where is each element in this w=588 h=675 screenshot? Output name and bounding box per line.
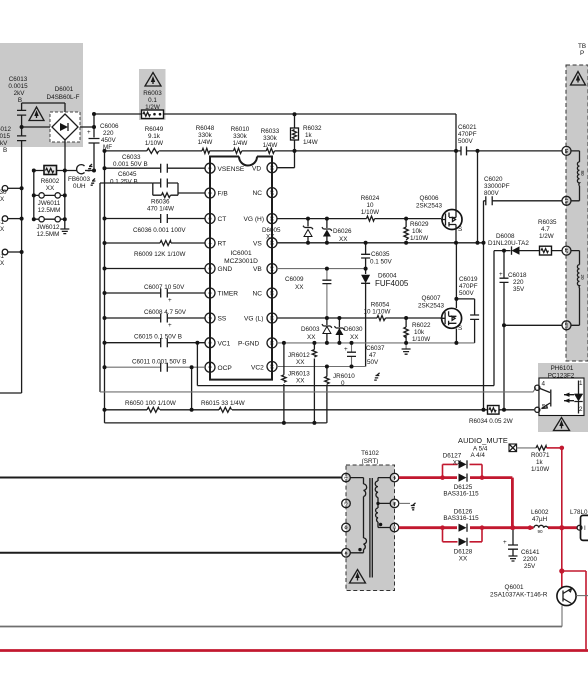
- terminal (AC in 1): [0, 186, 22, 204]
- svg-text:17: 17: [564, 248, 569, 254]
- svg-text:TB: TB: [578, 43, 586, 50]
- IC left pin circles: [205, 163, 215, 372]
- svg-text:R6034 0.05 2W: R6034 0.05 2W: [469, 418, 513, 425]
- svg-text:35V: 35V: [513, 286, 525, 293]
- junction (VS node): [306, 241, 486, 245]
- junction (AC input rail): [20, 125, 24, 254]
- svg-text:D6127: D6127: [443, 453, 462, 460]
- svg-text:C6018: C6018: [508, 272, 527, 279]
- svg-text:XX: XX: [266, 234, 275, 241]
- wire pin8 ground stub: [399, 503, 416, 510]
- svg-text:25V: 25V: [524, 563, 536, 570]
- warning triangle (T6102): [350, 570, 366, 584]
- bridge rectifier D6001: [47, 86, 80, 142]
- svg-text:1/4W: 1/4W: [263, 142, 278, 149]
- svg-text:7: 7: [207, 317, 212, 320]
- diode D6128: [454, 538, 473, 563]
- svg-text:450V: 450V: [101, 137, 117, 144]
- junction (P-GND row): [282, 341, 459, 345]
- svg-text:VG (L): VG (L): [244, 316, 263, 323]
- svg-text:T6102: T6102: [361, 450, 379, 457]
- svg-text:R6009 12K 1/10W: R6009 12K 1/10W: [134, 251, 186, 258]
- capacitor C6015: [134, 334, 182, 348]
- svg-text:VS: VS: [253, 240, 262, 247]
- svg-text:11: 11: [269, 341, 274, 346]
- svg-text:R6036: R6036: [151, 199, 170, 206]
- wire opto drive row: [100, 388, 536, 392]
- resistor R6015: [201, 400, 245, 412]
- jumper JW6011: [34, 193, 65, 214]
- wire AC line rail: [0, 103, 65, 393]
- MOSFET Q6006: [416, 114, 462, 243]
- wire secondary 9 red row: [399, 526, 577, 529]
- svg-text:500V: 500V: [458, 138, 474, 145]
- svg-text:L6002: L6002: [531, 509, 549, 516]
- svg-text:10: 10: [269, 364, 274, 370]
- warning triangle (PH6101): [554, 418, 570, 431]
- svg-text:VB: VB: [253, 266, 262, 273]
- svg-text:NC: NC: [253, 190, 263, 197]
- capacitor C6013: [8, 76, 28, 115]
- svg-text:0UH: 0UH: [73, 183, 86, 190]
- diode D6126: [443, 509, 479, 532]
- svg-text:1/10W: 1/10W: [531, 466, 549, 473]
- resistor R6054: [364, 302, 391, 321]
- svg-text:JR6012: JR6012: [288, 352, 310, 359]
- svg-text:1: 1: [579, 380, 583, 387]
- resistor R6034: [469, 406, 513, 426]
- capacitor C6020: [484, 176, 563, 205]
- T6001 pin 17: [562, 246, 571, 255]
- AC input shaded area: [0, 43, 83, 147]
- svg-text:2: 2: [579, 406, 583, 413]
- svg-text:kV: kV: [0, 140, 8, 147]
- svg-text:R6002: R6002: [41, 178, 60, 185]
- svg-text:R6003: R6003: [143, 90, 162, 97]
- svg-text:4: 4: [542, 381, 546, 388]
- svg-text:BAS316-115: BAS316-115: [443, 515, 479, 522]
- svg-text:P-GND: P-GND: [238, 341, 259, 348]
- svg-text:2kV: 2kV: [14, 90, 26, 97]
- svg-text:1/10W: 1/10W: [412, 336, 430, 343]
- vertical rail (left): [104, 151, 106, 423]
- wire pin1 VSENSE row: [105, 167, 206, 169]
- hazard resistor R6003: [142, 73, 164, 119]
- svg-text:C6013: C6013: [9, 76, 28, 83]
- resistor R6002: [34, 166, 77, 193]
- transistor Q6001: [490, 584, 576, 606]
- IC right pin circles: [267, 163, 277, 372]
- svg-text:0.1: 0.1: [148, 97, 157, 104]
- svg-text:18: 18: [564, 323, 569, 329]
- svg-text:C6019: C6019: [459, 276, 478, 283]
- svg-text:90: 90: [537, 529, 543, 534]
- svg-text:80: 80: [580, 170, 585, 176]
- T6102 pin 7: [390, 473, 399, 482]
- svg-text:0.1 50V: 0.1 50V: [370, 259, 393, 266]
- jumper JR6012: [288, 343, 317, 423]
- svg-text:XX: XX: [350, 334, 359, 341]
- PH6101 LED: [574, 380, 583, 414]
- svg-text:+: +: [503, 539, 507, 546]
- svg-text:Q6001: Q6001: [505, 584, 524, 591]
- svg-text:1/10W: 1/10W: [145, 140, 163, 147]
- svg-text:JW6011: JW6011: [38, 200, 61, 207]
- svg-text:XX: XX: [46, 185, 55, 192]
- svg-text:C6141: C6141: [521, 549, 540, 556]
- wire pin4 RT row: [105, 242, 206, 244]
- capacitor C6019: [456, 276, 479, 343]
- capacitor C6008: [144, 309, 187, 329]
- svg-text:R6029: R6029: [410, 221, 429, 228]
- svg-text:R6024: R6024: [361, 195, 380, 202]
- svg-text:D6003: D6003: [301, 326, 320, 333]
- svg-text:3: 3: [207, 217, 212, 220]
- wire pin16 gate row (high): [277, 218, 441, 220]
- svg-text:NC: NC: [253, 291, 263, 298]
- vertical rail (F/B return): [99, 183, 101, 392]
- wire red branch to B+: [562, 571, 586, 649]
- svg-text:D6008: D6008: [496, 233, 515, 240]
- svg-text:JR6013: JR6013: [288, 371, 310, 378]
- regulator L78L09: [570, 509, 588, 540]
- wire pin3 CT row: [105, 218, 206, 220]
- svg-text:I: I: [584, 525, 586, 532]
- svg-text:0.1 25V B: 0.1 25V B: [110, 179, 138, 186]
- svg-text:220: 220: [513, 279, 524, 286]
- svg-text:+: +: [499, 271, 503, 278]
- svg-text:12.5MM: 12.5MM: [37, 231, 60, 238]
- svg-text:XX: XX: [339, 236, 348, 243]
- svg-text:D6026: D6026: [333, 228, 352, 235]
- ground (R6022): [402, 343, 411, 354]
- svg-text:R6054: R6054: [371, 302, 390, 309]
- terminal (AC in 3): [0, 249, 22, 267]
- svg-text:D6128: D6128: [454, 549, 473, 556]
- svg-text:17: 17: [269, 190, 274, 196]
- T6102 pin 9: [390, 523, 399, 532]
- svg-text:VC2: VC2: [251, 365, 264, 372]
- jumper JR6013: [282, 343, 311, 423]
- svg-text:1/4W: 1/4W: [198, 139, 213, 146]
- junction (VC2 row): [325, 297, 459, 369]
- svg-text:15: 15: [564, 148, 569, 154]
- junction (gate row low): [325, 316, 408, 320]
- wire pin17 aux row: [494, 251, 562, 386]
- ground tag (JR6010): [374, 373, 379, 380]
- svg-text:+: +: [168, 322, 172, 329]
- svg-text:XX: XX: [295, 284, 304, 291]
- svg-text:GND: GND: [218, 266, 233, 273]
- svg-text:1k: 1k: [305, 132, 313, 139]
- svg-text:C6036 0.001 100V: C6036 0.001 100V: [133, 227, 186, 234]
- wire pin15 VS row: [277, 242, 484, 244]
- svg-text:XX: XX: [307, 334, 316, 341]
- diode D6125: [443, 474, 479, 498]
- svg-text:VD: VD: [252, 165, 261, 172]
- transformer T6001 box: [566, 65, 588, 361]
- svg-text:D6030: D6030: [344, 326, 363, 333]
- warning triangle (bridge): [29, 107, 44, 121]
- svg-text:9: 9: [207, 366, 212, 369]
- svg-text:14: 14: [269, 266, 274, 272]
- capacitor C6007: [144, 284, 185, 304]
- svg-text:6: 6: [207, 292, 212, 295]
- diode D6127: [443, 453, 467, 469]
- svg-text:CT: CT: [218, 216, 227, 223]
- svg-text:MCZ3001D: MCZ3001D: [224, 258, 258, 265]
- wire HV drop: [483, 201, 485, 410]
- svg-text:330k: 330k: [263, 135, 278, 142]
- IC6001 MCZ3001D body: [210, 157, 272, 380]
- T6001 winding 17-18: [571, 251, 585, 326]
- svg-text:R6032: R6032: [303, 125, 322, 132]
- svg-text:C6015 0.1 50V B: C6015 0.1 50V B: [134, 334, 182, 341]
- inductor L6002: [531, 509, 549, 534]
- resistor R6035: [538, 219, 557, 255]
- svg-text:C6037: C6037: [366, 345, 385, 352]
- capacitor C6011: [132, 359, 187, 372]
- svg-text:2200: 2200: [523, 556, 538, 563]
- svg-text:VG (H): VG (H): [244, 216, 265, 223]
- svg-text:VSENSE: VSENSE: [218, 166, 245, 173]
- svg-text:FUF4005: FUF4005: [375, 279, 409, 288]
- wire red to Q6001: [561, 528, 563, 588]
- svg-text:12: 12: [269, 315, 274, 321]
- snubber C6021 return: [477, 151, 479, 243]
- svg-text:BAS316-115: BAS316-115: [443, 491, 479, 498]
- svg-text:XX: XX: [296, 378, 305, 385]
- wire pin7 SS row: [105, 317, 206, 319]
- svg-text:800V: 800V: [484, 190, 500, 197]
- wire bridge right: [78, 126, 94, 128]
- svg-text:330k: 330k: [198, 132, 213, 139]
- T6102 pin 2: [342, 499, 351, 508]
- ground (JW6012): [60, 219, 69, 233]
- svg-text:47: 47: [369, 352, 377, 359]
- resistor R0071: [517, 446, 550, 473]
- svg-text:47µH: 47µH: [532, 516, 548, 523]
- svg-text:R6010: R6010: [231, 126, 250, 133]
- optocoupler PH6101: [539, 365, 584, 416]
- svg-text:1: 1: [344, 476, 349, 479]
- wire below-IC aux feed: [197, 385, 494, 387]
- svg-text:1k: 1k: [536, 459, 544, 466]
- svg-text:D1NL20U-TA2: D1NL20U-TA2: [488, 240, 529, 247]
- svg-text:2SK2543: 2SK2543: [418, 303, 444, 310]
- svg-text:5: 5: [207, 267, 212, 270]
- T6001 pin 16: [562, 196, 571, 205]
- resistor R6032: [291, 114, 323, 151]
- junction (R6002/jumper rows): [32, 112, 96, 221]
- red junction dots: [440, 446, 564, 574]
- svg-text:1/2W: 1/2W: [539, 233, 554, 240]
- svg-text:C6006: C6006: [100, 123, 119, 130]
- svg-text:F/B: F/B: [218, 191, 229, 198]
- resistor R6029: [404, 219, 429, 243]
- junction (VB row): [325, 267, 368, 271]
- svg-text:8: 8: [207, 341, 212, 344]
- svg-text:JR6010: JR6010: [333, 373, 355, 380]
- T6001 pin 18: [562, 321, 571, 330]
- wire pin10 VC2 row: [277, 366, 366, 368]
- capacitor C6021: [458, 124, 477, 155]
- svg-text:A 4/4: A 4/4: [471, 452, 486, 459]
- resistor R6048: [196, 125, 215, 153]
- svg-text:4: 4: [344, 552, 349, 555]
- svg-text:XX: XX: [296, 359, 305, 366]
- resistor R6033: [261, 128, 280, 153]
- wire bridge left: [22, 126, 52, 128]
- svg-text:XX: XX: [459, 556, 468, 563]
- svg-text:10 1/10W: 10 1/10W: [364, 309, 391, 316]
- wire neutral line (bottom left): [0, 552, 342, 554]
- svg-text:C6035: C6035: [371, 251, 390, 258]
- resistor R6049: [145, 126, 164, 153]
- svg-text:R6050 100 1/10W: R6050 100 1/10W: [125, 400, 176, 407]
- wire Q6001 collector to cold rail: [561, 605, 563, 626]
- svg-text:470PF: 470PF: [458, 131, 477, 138]
- resistor R6009: [134, 241, 186, 259]
- svg-text:C6007 10 50V: C6007 10 50V: [144, 284, 185, 291]
- wire Q6001 base: [576, 595, 588, 597]
- resistor R6050: [125, 400, 176, 412]
- wire pin5 GND row: [105, 268, 206, 270]
- svg-text:TIMER: TIMER: [218, 291, 239, 298]
- wire 15V red drop: [561, 448, 563, 528]
- svg-text:10k: 10k: [412, 228, 423, 235]
- svg-text:9: 9: [392, 526, 397, 529]
- svg-text:Q6006: Q6006: [420, 195, 439, 202]
- wire hot line (bottom left): [0, 477, 342, 479]
- wire pin8 VC1 row: [105, 342, 206, 344]
- svg-text:C6045: C6045: [118, 171, 137, 178]
- svg-text:B: B: [18, 97, 22, 104]
- audio mute tag: [458, 436, 517, 459]
- svg-text:0.0015: 0.0015: [8, 83, 28, 90]
- T6102 pin 8: [390, 499, 399, 508]
- wire pin14 VB row: [277, 268, 366, 270]
- junction (aux supply column): [482, 249, 507, 412]
- warning triangle (T6001): [571, 72, 586, 86]
- svg-text:31: 31: [0, 253, 5, 260]
- T6102 core: [370, 478, 372, 578]
- capacitor C6018: [499, 251, 527, 326]
- svg-text:50V: 50V: [367, 359, 379, 366]
- svg-text:7: 7: [392, 476, 397, 479]
- svg-text:2SA1037AK-T146-R: 2SA1037AK-T146-R: [490, 592, 548, 599]
- junction (left feed rail): [103, 149, 200, 412]
- svg-text:220: 220: [103, 130, 114, 137]
- svg-text:500V: 500V: [459, 290, 475, 297]
- transformer T6102 labels: [361, 450, 379, 465]
- svg-text:1/10W: 1/10W: [410, 235, 428, 242]
- svg-text:15: 15: [269, 240, 274, 246]
- svg-text:470 1/4W: 470 1/4W: [147, 206, 174, 213]
- wire secondary 7 red row: [399, 476, 513, 479]
- svg-text:+: +: [87, 129, 91, 136]
- svg-text:16: 16: [269, 216, 274, 222]
- T6001 pin 15: [562, 146, 571, 155]
- capacitor C6009: [285, 269, 331, 318]
- svg-text:0015: 0015: [0, 133, 11, 140]
- wire ground return row: [105, 409, 535, 411]
- PH6101 coupling arrows: [564, 393, 574, 403]
- optocoupler PH6101 box: [538, 363, 588, 432]
- wire sense rail: [105, 150, 563, 152]
- svg-text:R6015 33 1/4W: R6015 33 1/4W: [201, 400, 245, 407]
- svg-text:16: 16: [564, 198, 569, 204]
- T6102 pin 1: [342, 473, 351, 482]
- svg-text:10: 10: [366, 202, 374, 209]
- svg-text:C6009: C6009: [285, 276, 304, 283]
- T6102 pin 3: [342, 523, 351, 532]
- wire bottom return row: [105, 422, 327, 424]
- zener D6005: [262, 219, 313, 243]
- T6102 pin 4: [342, 549, 351, 558]
- junction (bottom return row): [282, 421, 317, 425]
- zener D6003: [301, 318, 332, 343]
- wire pin2 F/B branch: [100, 183, 205, 195]
- wire cold rail: [0, 626, 562, 628]
- terminal (AC in 2): [0, 216, 22, 233]
- svg-text:18: 18: [269, 165, 274, 171]
- svg-text:IC6001: IC6001: [230, 250, 252, 257]
- capacitor C6033: [88, 154, 168, 173]
- transformer T6001 label (cut): [578, 43, 586, 57]
- svg-text:4.7: 4.7: [541, 226, 550, 233]
- svg-text:R6022: R6022: [412, 322, 431, 329]
- svg-text:C6011 0.001 50V B: C6011 0.001 50V B: [132, 359, 187, 366]
- wire pin9 OCP row: [105, 366, 206, 368]
- wire pin18 aux row: [504, 325, 562, 410]
- svg-text:2: 2: [207, 192, 212, 195]
- svg-text:R6049: R6049: [145, 126, 164, 133]
- svg-text:470PF: 470PF: [459, 283, 478, 290]
- wire R6002 row verticals: [34, 171, 65, 220]
- wire audio mute red: [547, 447, 562, 449]
- svg-text:9.1k: 9.1k: [148, 133, 161, 140]
- svg-text:C6020: C6020: [484, 176, 503, 183]
- svg-text:13: 13: [269, 290, 274, 296]
- svg-text:SS: SS: [218, 316, 227, 323]
- svg-text:B: B: [3, 147, 7, 154]
- svg-text:C6021: C6021: [458, 124, 477, 131]
- capacitor C6037: [344, 343, 385, 367]
- junction (HV rail / R6032): [293, 112, 480, 153]
- capacitor C6141: [503, 528, 540, 570]
- svg-text:AUDIO_MUTE: AUDIO_MUTE: [458, 436, 508, 445]
- capacitor C6006: [87, 123, 119, 151]
- svg-text:RT: RT: [218, 241, 227, 248]
- svg-text:S: S: [458, 325, 462, 332]
- capacitor C6045: [110, 171, 178, 188]
- capacitor C6012: [0, 126, 26, 154]
- resistor R6022: [404, 318, 431, 343]
- svg-text:10k: 10k: [414, 329, 425, 336]
- jumper JR6010: [325, 367, 356, 423]
- wire main HV rail: [94, 113, 456, 115]
- diode branch (lower pair): [443, 528, 483, 542]
- IC pin labels: [218, 165, 265, 371]
- resistor R6010: [231, 126, 250, 153]
- svg-text:31: 31: [0, 219, 5, 226]
- svg-text:P: P: [580, 50, 584, 57]
- svg-text:1: 1: [207, 167, 212, 170]
- svg-text:20: 20: [580, 274, 585, 280]
- T6102 secondary winding: [375, 478, 390, 528]
- svg-text:4: 4: [207, 242, 212, 245]
